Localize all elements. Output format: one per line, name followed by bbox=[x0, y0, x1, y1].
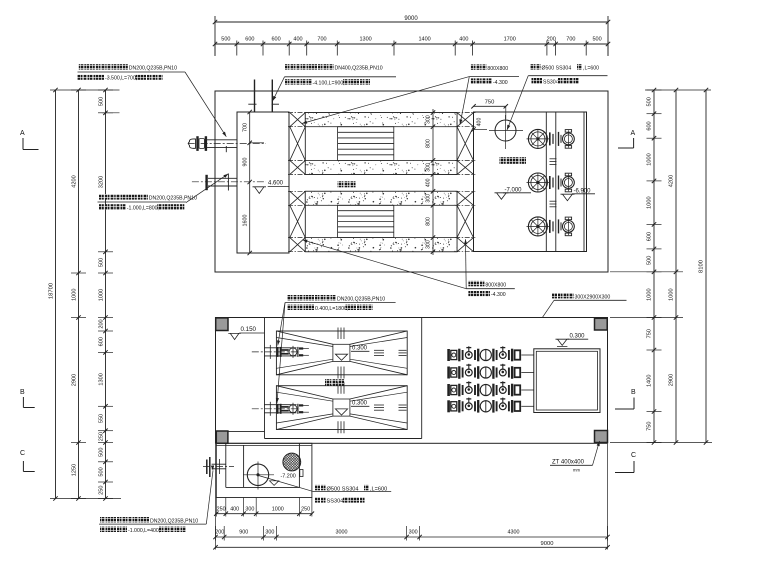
svg-text:700: 700 bbox=[566, 37, 575, 43]
svg-text:750: 750 bbox=[647, 329, 653, 338]
svg-text:-4.300: -4.300 bbox=[493, 80, 508, 86]
dim 400 left of sump bbox=[474, 129, 488, 131]
tank internal dim line 700/900/1600 bbox=[249, 112, 251, 253]
label between screen channels bbox=[338, 181, 344, 187]
screw pump row 3 bbox=[447, 384, 450, 396]
left chains top connector bbox=[50, 89, 120, 91]
svg-text:1000: 1000 bbox=[72, 288, 78, 300]
pump unit row 2 bbox=[528, 173, 547, 192]
svg-text:C: C bbox=[631, 452, 636, 459]
manifold joint ticks bbox=[550, 158, 557, 160]
svg-text:900: 900 bbox=[239, 530, 248, 536]
svg-text:200: 200 bbox=[215, 530, 224, 536]
svg-text:DN200,Q235B,PN10: DN200,Q235B,PN10 bbox=[337, 296, 385, 302]
dimension chain top segments bbox=[215, 43, 608, 45]
svg-text:800: 800 bbox=[426, 217, 432, 226]
svg-text:1400: 1400 bbox=[418, 37, 430, 43]
svg-text:ZT 400x400: ZT 400x400 bbox=[552, 460, 585, 466]
dimension row 200/900/300/3000/300/4300 bbox=[216, 536, 608, 538]
annotation embedded SS304 pipe bottom bbox=[259, 476, 314, 492]
svg-text:,L=600: ,L=600 bbox=[583, 66, 599, 72]
grit chamber channel 2 bbox=[276, 386, 407, 430]
svg-text:250: 250 bbox=[99, 432, 105, 441]
svg-text:600: 600 bbox=[647, 232, 653, 241]
svg-text:C: C bbox=[20, 450, 25, 457]
svg-text:500: 500 bbox=[99, 258, 105, 267]
svg-text:250: 250 bbox=[217, 507, 226, 513]
annotation pipe DN200 grit inlet bbox=[287, 295, 292, 300]
pump room label bbox=[500, 157, 506, 164]
pump unit row 3 bbox=[528, 217, 547, 236]
dimension chain top overall 9000 bbox=[214, 16, 216, 56]
svg-text:300X2900X300: 300X2900X300 bbox=[575, 294, 611, 300]
svg-text:-7.200: -7.200 bbox=[281, 474, 296, 480]
svg-text:800X800: 800X800 bbox=[487, 66, 508, 72]
dimension chain right inner segments bbox=[653, 90, 655, 443]
pump unit row 1 bbox=[528, 129, 547, 148]
svg-text:1250: 1250 bbox=[72, 464, 78, 476]
annotation pipe DN200 mid-left bbox=[99, 194, 104, 199]
svg-text:-4.100,L=900,: -4.100,L=900, bbox=[313, 80, 345, 86]
svg-text:900: 900 bbox=[243, 158, 249, 167]
svg-text:4.600: 4.600 bbox=[268, 181, 284, 187]
dim 750 above sump bbox=[474, 105, 506, 107]
svg-text:8100: 8100 bbox=[699, 260, 705, 273]
lower building outline bbox=[216, 318, 608, 444]
svg-text:500: 500 bbox=[99, 448, 105, 457]
svg-text:SS304: SS304 bbox=[327, 499, 344, 505]
svg-text:700: 700 bbox=[317, 37, 326, 43]
annotation pipe DN200 top-left bbox=[79, 64, 84, 69]
annotation screen mesh 800X800 bottom bbox=[468, 281, 473, 286]
svg-text:1700: 1700 bbox=[504, 37, 516, 43]
pit inlet pipe bbox=[203, 466, 234, 468]
svg-text:DN200,Q235B,PN10: DN200,Q235B,PN10 bbox=[129, 66, 177, 72]
svg-text:-1.000,L=800,: -1.000,L=800, bbox=[127, 206, 159, 212]
inlet tank bbox=[237, 112, 289, 253]
svg-text:800: 800 bbox=[426, 139, 432, 148]
svg-text:Ø500 SS304: Ø500 SS304 bbox=[542, 66, 572, 72]
svg-text:300: 300 bbox=[409, 530, 418, 536]
screen mesh hatch columns bbox=[290, 113, 306, 127]
svg-text:-1.000,L=400,: -1.000,L=400, bbox=[128, 528, 160, 534]
screw pump row 4 bbox=[447, 400, 450, 412]
svg-text:1000: 1000 bbox=[647, 153, 653, 165]
clear water tank bbox=[534, 349, 600, 413]
svg-text:0.300: 0.300 bbox=[352, 401, 368, 407]
svg-text:-3.500,L=700,: -3.500,L=700, bbox=[105, 76, 137, 82]
dimension chain left middle (4200/1000/2900/1250) bbox=[78, 90, 80, 499]
svg-text:4200: 4200 bbox=[72, 175, 78, 187]
svg-text:0.300: 0.300 bbox=[352, 346, 368, 352]
svg-text:1000: 1000 bbox=[272, 507, 284, 513]
svg-text:500: 500 bbox=[99, 97, 105, 106]
svg-text:400: 400 bbox=[230, 507, 239, 513]
screw pump row 2 bbox=[447, 367, 450, 379]
svg-text:200: 200 bbox=[99, 319, 105, 328]
svg-text:SS304: SS304 bbox=[543, 79, 559, 85]
svg-text:1000: 1000 bbox=[647, 196, 653, 208]
svg-text:400: 400 bbox=[293, 37, 302, 43]
svg-text:250: 250 bbox=[301, 507, 310, 513]
svg-text:3200: 3200 bbox=[99, 176, 105, 188]
pump pit outline bbox=[216, 443, 312, 497]
svg-text:500: 500 bbox=[221, 37, 230, 43]
annotation embedded SS304 pipe top-right bbox=[530, 64, 535, 69]
svg-text:A: A bbox=[631, 130, 636, 137]
pit pump circle bbox=[247, 464, 268, 485]
annotation equipment base 300X2900X300 bbox=[552, 293, 557, 298]
svg-text:400: 400 bbox=[477, 118, 483, 127]
svg-text:3000: 3000 bbox=[336, 530, 348, 536]
svg-text:B: B bbox=[631, 389, 636, 396]
svg-text:500: 500 bbox=[647, 97, 653, 106]
grit inlet pipe 1 bbox=[252, 351, 300, 353]
svg-text:4300: 4300 bbox=[508, 530, 520, 536]
svg-text:300: 300 bbox=[426, 115, 432, 124]
svg-text:300: 300 bbox=[265, 530, 274, 536]
pump manifold pipes bbox=[545, 112, 547, 252]
svg-text:200: 200 bbox=[547, 37, 556, 43]
svg-text:550: 550 bbox=[99, 414, 105, 423]
pit motor circle hatched bbox=[283, 453, 301, 471]
svg-text:800X800: 800X800 bbox=[485, 282, 506, 288]
svg-text:1000: 1000 bbox=[669, 288, 675, 300]
column top-right bbox=[595, 318, 608, 330]
svg-text:300: 300 bbox=[426, 194, 432, 203]
svg-text:1600: 1600 bbox=[243, 215, 249, 227]
svg-text:600: 600 bbox=[245, 37, 254, 43]
svg-text:1000: 1000 bbox=[99, 289, 105, 301]
svg-text:600: 600 bbox=[272, 37, 281, 43]
svg-text:600: 600 bbox=[99, 337, 105, 346]
grit basin inner walls bbox=[264, 318, 266, 439]
svg-text:0.400,L=1800,: 0.400,L=1800, bbox=[315, 306, 348, 312]
svg-text:A: A bbox=[20, 130, 25, 137]
svg-text:DN200,Q235B,PN10: DN200,Q235B,PN10 bbox=[149, 196, 197, 202]
screw pump row 1 bbox=[447, 349, 450, 361]
svg-text:300: 300 bbox=[426, 240, 432, 249]
dimension chain right 8100 bbox=[705, 90, 707, 443]
flanged wall pipe lower-left DN200 bbox=[192, 181, 266, 183]
svg-text:1400: 1400 bbox=[647, 374, 653, 386]
svg-text:9000: 9000 bbox=[541, 541, 554, 547]
svg-text:18700: 18700 bbox=[49, 283, 55, 299]
grit chamber channel 1 bbox=[276, 331, 407, 375]
svg-text:DN200,Q235B,PN10: DN200,Q235B,PN10 bbox=[150, 518, 198, 524]
pump room bbox=[474, 112, 587, 252]
svg-text:1300: 1300 bbox=[359, 37, 371, 43]
annotation screen mesh 800X800 top bbox=[470, 64, 475, 69]
column top-left bbox=[216, 318, 228, 331]
annotation pipe DN400 top-middle bbox=[285, 64, 290, 69]
column bottom-right bbox=[595, 431, 608, 443]
dimension chain left 18700 bbox=[55, 90, 57, 499]
upper building outline bbox=[215, 91, 608, 272]
svg-text:2900: 2900 bbox=[72, 374, 78, 386]
svg-text:700: 700 bbox=[243, 123, 249, 132]
pump sump circle bbox=[495, 120, 516, 141]
svg-text:400: 400 bbox=[459, 37, 468, 43]
svg-text:500: 500 bbox=[593, 37, 602, 43]
screen grid unit 2 bbox=[338, 205, 394, 237]
svg-text:750: 750 bbox=[647, 422, 653, 431]
svg-text:500: 500 bbox=[99, 467, 105, 476]
svg-text:500: 500 bbox=[647, 256, 653, 265]
svg-text:9000: 9000 bbox=[404, 16, 418, 22]
svg-text:1300: 1300 bbox=[99, 373, 105, 385]
svg-text:0.300: 0.300 bbox=[570, 334, 586, 340]
svg-text:300: 300 bbox=[426, 163, 432, 172]
svg-text:300: 300 bbox=[245, 507, 254, 513]
grit inlet pipe 2 bbox=[252, 408, 300, 410]
svg-text:250: 250 bbox=[99, 486, 105, 495]
svg-text:DN400,Q235B,PN10: DN400,Q235B,PN10 bbox=[335, 66, 383, 72]
svg-text:2900: 2900 bbox=[669, 374, 675, 386]
grit basin label bbox=[325, 379, 331, 385]
dimension chain right 4200/1000/2900 bbox=[675, 90, 677, 443]
svg-text:-4.300: -4.300 bbox=[491, 292, 506, 298]
annotation pipe DN200 bottom-left bbox=[100, 517, 105, 522]
screen channel dim line 300/800/300/400/300/800/300 bbox=[432, 109, 434, 255]
pit dimension row 250/400/300/1000/250 bbox=[216, 513, 312, 515]
svg-text:600: 600 bbox=[647, 121, 653, 130]
svg-text:750: 750 bbox=[485, 100, 495, 106]
flanged wall pipe upper-left DN200 bbox=[188, 142, 266, 144]
dimension bottom overall 9000 bbox=[216, 546, 608, 548]
column bottom-left bbox=[216, 431, 228, 443]
svg-text:400: 400 bbox=[426, 178, 432, 187]
screen grid unit 1 bbox=[338, 127, 394, 161]
svg-text:mm: mm bbox=[573, 468, 580, 473]
svg-text:4200: 4200 bbox=[669, 175, 675, 187]
left chains bottom connector bbox=[50, 498, 121, 500]
right chains connectors bbox=[645, 89, 711, 91]
svg-text:0.150: 0.150 bbox=[241, 326, 257, 333]
dimension chain left inner segments bbox=[105, 90, 107, 499]
coarse screen channel unit 2 bbox=[305, 191, 457, 251]
tank top pipes bbox=[254, 80, 256, 113]
svg-text:B: B bbox=[20, 389, 25, 396]
svg-text:1000: 1000 bbox=[647, 288, 653, 300]
coarse screen channel unit 1 bbox=[305, 113, 457, 175]
